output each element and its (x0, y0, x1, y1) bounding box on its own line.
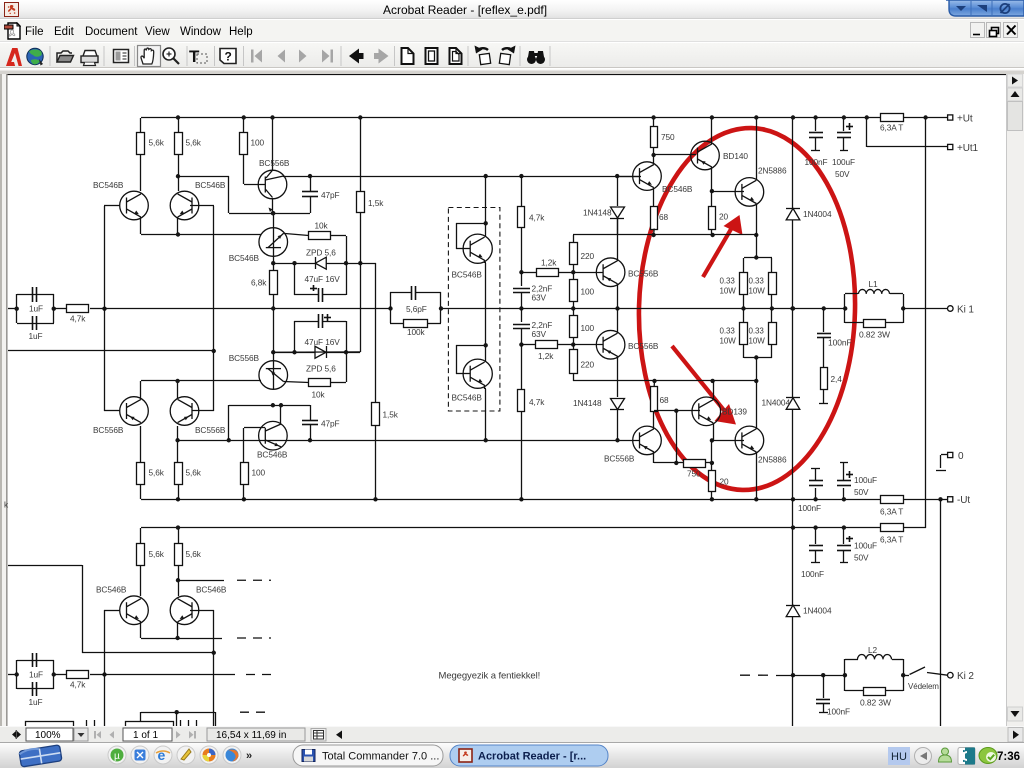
wire Q2 emitter / emitter rail (177, 217, 179, 234)
svg-text:100k: 100k (407, 327, 426, 337)
svg-text:µ: µ (114, 751, 120, 762)
svg-text:+Ut1: +Ut1 (957, 143, 979, 154)
page view icons (402, 48, 462, 64)
wire vbe top node (273, 263, 376, 265)
capacitor C12 100nF mid (815, 488, 817, 499)
svg-text:10k: 10k (312, 390, 326, 400)
transistor Q2 BC546B (170, 191, 199, 220)
svg-text:6,3A T: 6,3A T (880, 507, 903, 517)
diode D6 1N4004 mid (792, 308, 794, 398)
resistor R9 1,5k lower (375, 263, 377, 403)
wire Q2b base (192, 410, 214, 412)
svg-text:20: 20 (720, 477, 730, 487)
resistor R7 10k lower (284, 382, 309, 383)
svg-text:220: 220 (581, 360, 595, 370)
globe icon (27, 48, 43, 64)
svg-text:BC556B: BC556B (93, 425, 124, 435)
wire BD140 collector down (711, 167, 713, 191)
resistor R29 68 lower (651, 387, 658, 412)
svg-text:T: T (189, 47, 200, 66)
wire BD139 collector up (713, 381, 715, 400)
wire ch2 supply rail (141, 527, 881, 529)
capacitor C5 47uF 16V lower (294, 321, 296, 352)
svg-text:10W: 10W (749, 337, 766, 346)
resistor R16 1,2k lower (519, 342, 523, 346)
svg-text:0.33: 0.33 (720, 277, 736, 286)
binoculars (527, 51, 545, 64)
svg-text:Total Commander 7.0 ...: Total Commander 7.0 ... (322, 751, 439, 763)
resistor R1 4,7k input (54, 308, 67, 310)
resistor R23 68 upper (651, 207, 658, 230)
svg-text:Megegyezik a fentiekkel!: Megegyezik a fentiekkel! (439, 671, 541, 682)
svg-text:68: 68 (660, 395, 670, 405)
wire ch2 input stub (8, 674, 17, 676)
transistor Q16 2N5886 bottom (735, 426, 764, 455)
wire T up to y405 (228, 405, 230, 440)
capacitor C11 100uF 50V top (843, 118, 845, 131)
svg-text:100uF: 100uF (832, 157, 855, 167)
wire y410 base link (654, 410, 700, 412)
svg-text:BC546B: BC546B (662, 184, 693, 194)
wire T down to emitter wire (228, 176, 230, 213)
resistor R10 100k (390, 323, 404, 325)
navigation pane icon (114, 50, 129, 63)
capacitor C4 47uF 16V upper (294, 263, 296, 295)
resistor R17 4,7k lower (521, 345, 523, 390)
wire Q13 emitter down (756, 204, 758, 258)
svg-text:5,6k: 5,6k (186, 138, 202, 148)
resistor R13 100 bottom (241, 463, 249, 485)
svg-text:6,3A T: 6,3A T (880, 535, 903, 545)
resistor R34 5,6k ch2 (140, 528, 142, 544)
svg-text:5,6k: 5,6k (186, 468, 202, 478)
page nav (94, 731, 114, 739)
svg-text:4,7k: 4,7k (529, 397, 545, 407)
svg-text:50V: 50V (854, 487, 869, 497)
wire Q2b emitter / rail y381 (177, 381, 179, 399)
transistor Q1b BC556B (120, 397, 149, 426)
resistor R31 20 lower (711, 440, 713, 463)
svg-text:1,2k: 1,2k (541, 258, 557, 268)
capacitor C10 100nF top (815, 118, 817, 131)
svg-text:5,6k: 5,6k (149, 138, 165, 148)
svg-text:0: 0 (958, 451, 964, 462)
svg-text:1N4004: 1N4004 (803, 209, 832, 219)
svg-text:100nF: 100nF (828, 338, 852, 348)
wire bridge bottom (744, 357, 772, 359)
wire Q2b collector (177, 426, 179, 462)
wire Q10 emitter down (617, 356, 619, 397)
wire +Ut1 branch (866, 118, 868, 147)
svg-text:100%: 100% (35, 730, 61, 741)
fuse F3 6,3A T ch2 (881, 524, 904, 532)
switch Vedelem (901, 673, 905, 677)
svg-text:+Ut: +Ut (957, 114, 973, 125)
diode D4 1N4148 lower (611, 399, 625, 410)
svg-text:47uF 16V: 47uF 16V (305, 274, 341, 284)
inductor L2 (823, 675, 845, 677)
svg-text:47uF 16V: 47uF 16V (305, 337, 341, 347)
wire ch2 output dashes (740, 674, 776, 676)
wire Q14 emitter down (653, 452, 655, 463)
resistor R26 0.33 10W (771, 258, 773, 272)
wire BD139 emitter down (713, 423, 715, 440)
transistor Q18 BC546B diode lower (463, 359, 492, 388)
svg-text:L2: L2 (868, 645, 878, 655)
wire Q19 base (104, 610, 120, 612)
resistor R3 5,6k (178, 118, 180, 132)
wire ch2 input line (104, 674, 235, 676)
capacitor C13 100uF 50V mid (843, 488, 845, 499)
svg-text:50V: 50V (835, 169, 850, 179)
transistor Q9 BC556B upper (596, 258, 625, 287)
terminal 0 (941, 454, 948, 456)
folder (57, 51, 72, 62)
terminal -Ut (938, 497, 942, 501)
svg-text:10W: 10W (720, 337, 737, 346)
svg-text:1N4148: 1N4148 (573, 398, 602, 408)
svg-text:L1: L1 (869, 279, 879, 289)
svg-text:4,7k: 4,7k (529, 213, 545, 223)
wire Q11 collector (653, 155, 655, 164)
wire Q9 collector down (617, 284, 619, 308)
resistor R36 4,7k ch2 (54, 674, 67, 676)
resistor R8 1,5k upper (360, 118, 362, 192)
resistor R22 750 (653, 118, 655, 126)
svg-text:1uF: 1uF (29, 331, 43, 341)
wire Q2 base column (190, 205, 214, 207)
quick launch icons (108, 746, 252, 764)
svg-text:1N4004: 1N4004 (762, 398, 791, 408)
svg-text:100nF: 100nF (827, 707, 850, 717)
start flag (19, 745, 62, 767)
svg-text:63V: 63V (532, 293, 547, 303)
wire Q9 emitter up (617, 219, 619, 261)
resistor R11 5,6k bottom (137, 463, 145, 485)
svg-text:10W: 10W (720, 287, 737, 296)
svg-text:750: 750 (661, 132, 675, 142)
wire feedback line (8, 350, 214, 352)
resistor R21 220 lower (573, 345, 575, 350)
zoom tool (163, 48, 175, 60)
printer (83, 51, 97, 57)
svg-text:10W: 10W (749, 287, 766, 296)
transistor Q14 BC556B driver lower (633, 426, 662, 455)
svg-text:BC546B: BC546B (196, 585, 227, 595)
wire Q1b collector (140, 426, 142, 462)
svg-text:7:36: 7:36 (997, 751, 1020, 763)
svg-text:1uF: 1uF (29, 697, 43, 707)
wire y405 (229, 405, 310, 407)
resistor R5 10k upper (284, 233, 309, 235)
svg-text:BC546B: BC546B (195, 180, 226, 190)
transistor Q10 BC556B lower (596, 330, 625, 359)
svg-text:750: 750 (687, 469, 701, 479)
svg-text:6,8k: 6,8k (251, 278, 267, 288)
terminal +Ut (948, 115, 953, 120)
diode D3 1N4148 upper (617, 176, 619, 206)
svg-text:Acrobat Reader - [r...: Acrobat Reader - [r... (478, 751, 586, 763)
svg-text:5,6k: 5,6k (149, 468, 165, 478)
svg-text:0.33: 0.33 (749, 277, 765, 286)
back arrow (black), forward (gray) (349, 49, 364, 64)
wire Q2 collector (178, 155, 180, 191)
capacitor C3 47pF (310, 176, 312, 192)
fuse F2 6,3A T (881, 496, 904, 504)
svg-text:4,7k: 4,7k (70, 314, 86, 324)
h-scroll right arrow at far right (1008, 728, 1023, 743)
help tool (220, 49, 236, 64)
wire input stub (8, 308, 17, 310)
nav arrows first/prev/next/last (disabled) (251, 50, 333, 63)
svg-text:5,6pF: 5,6pF (406, 304, 427, 314)
wire 220 top to y235 (573, 234, 654, 236)
svg-text:Ki 1: Ki 1 (957, 305, 974, 316)
wire Q1 base column (104, 206, 106, 309)
transistor Q20 BC546B ch2 (170, 596, 199, 625)
svg-text:0.33: 0.33 (749, 327, 765, 336)
svg-text:100uF: 100uF (854, 475, 877, 485)
window buttons (blue skin) (946, 0, 1024, 19)
capacitor C18 1uF ch2 (32, 682, 34, 696)
wire Q1b base (104, 410, 120, 412)
transistor Q11 BC546B driver (633, 162, 662, 191)
svg-text:0.82 3W: 0.82 3W (859, 330, 890, 340)
svg-text:50V: 50V (854, 553, 869, 563)
red arrow lower (672, 346, 727, 414)
svg-text:100: 100 (581, 287, 595, 297)
svg-text:1,5k: 1,5k (368, 198, 384, 208)
tray (888, 747, 910, 765)
pdf document icon (4, 22, 21, 40)
svg-text:1,5k: 1,5k (383, 410, 399, 420)
capacitor C1 1uF (17, 294, 54, 296)
svg-text:16,54 x 11,69 in: 16,54 x 11,69 in (216, 730, 286, 741)
wire mid supply to -Ut (141, 499, 881, 501)
transistor Q3 BC556B (272, 118, 274, 170)
svg-text:-Ut: -Ut (957, 495, 970, 506)
svg-text:4,7k: 4,7k (70, 680, 86, 690)
terminal Ki 1 (901, 306, 905, 310)
wire Q18 emitter down (484, 385, 486, 389)
red annotation ellipse (634, 125, 859, 493)
acrobat app icon (4, 2, 19, 17)
wire Q14 collector up to 68 (653, 411, 655, 429)
resistor R39 0.82 3W ch2 (845, 690, 863, 692)
capacitor C15 100uF 50V ch2 (843, 528, 845, 544)
svg-text:BD140: BD140 (723, 151, 748, 161)
zoom box (26, 728, 73, 741)
svg-text:BC556B: BC556B (259, 158, 290, 168)
resistor R20 100 lower (573, 308, 575, 315)
svg-text:100nF: 100nF (805, 157, 828, 167)
capacitor C8 2,2nF 63V upper (521, 272, 523, 286)
svg-text:5,6k: 5,6k (149, 549, 165, 559)
wire output to L1 (790, 306, 794, 310)
svg-text:100nF: 100nF (798, 503, 821, 513)
svg-text:BC556B: BC556B (604, 454, 635, 464)
hand tool pressed (138, 46, 161, 67)
resistor R27 0.33 10W lower (743, 308, 745, 322)
wire Q17 base tie (456, 248, 470, 250)
dashed box (448, 208, 500, 412)
transistor Q15 BD139 (692, 397, 721, 426)
svg-text:100: 100 (251, 138, 265, 148)
svg-text:1N4004: 1N4004 (803, 606, 832, 616)
svg-text:Védelem: Védelem (908, 682, 939, 691)
svg-text:6,3A T: 6,3A T (880, 123, 903, 133)
wire Q16 emitter down (756, 452, 758, 499)
resistor R6 6,8k (273, 263, 275, 270)
mdi child buttons (970, 22, 1022, 39)
svg-text:BD139: BD139 (722, 407, 747, 417)
diode D7 1N4004 ch2 (792, 528, 794, 605)
svg-text:ZPD 5,6: ZPD 5,6 (306, 248, 336, 258)
svg-text:100: 100 (252, 468, 266, 478)
resistor R2 5,6k (140, 118, 142, 132)
fuse F1 6,3A T (881, 114, 904, 122)
svg-text:47pF: 47pF (321, 190, 340, 200)
svg-text:0.33: 0.33 (720, 327, 736, 336)
wire Q16 collector up (756, 381, 758, 429)
wire bridge top (744, 257, 772, 259)
wire -Ut down (940, 499, 942, 726)
resistor R18 220 upper (573, 235, 575, 242)
capacitor C9 2,2nF 63V lower (521, 308, 523, 322)
svg-text:ZPD 5,6: ZPD 5,6 (306, 364, 336, 374)
task button: total commander (293, 745, 443, 766)
svg-text:2N5886: 2N5886 (758, 455, 787, 465)
svg-text:5,6k: 5,6k (186, 549, 202, 559)
wire bias rail y440 (178, 440, 639, 442)
resistor R12 5,6k bottom (175, 463, 183, 485)
resistor R24 20 upper (711, 191, 713, 206)
wire vbe bottom node (273, 352, 360, 354)
transistor Q6 BC546B vbe upper (273, 213, 275, 228)
svg-text:220: 220 (581, 251, 595, 261)
wire 2N5886 top base (712, 191, 744, 193)
wire Q20 base (190, 610, 214, 612)
wire 2N5886 bottom base (712, 440, 744, 442)
svg-text:1N4148: 1N4148 (583, 208, 612, 218)
transistor Q19 BC546B ch2 (120, 596, 149, 625)
page top border (8, 73, 1007, 75)
svg-text:20: 20 (719, 212, 729, 222)
resistor R32 2,4 (821, 368, 828, 390)
svg-text:BC556B: BC556B (628, 269, 659, 279)
splitter glyph (12, 731, 18, 738)
svg-text:1uF: 1uF (29, 304, 43, 314)
inductor L1 (843, 306, 847, 310)
wire Q1b emitter (140, 381, 142, 399)
svg-text:68: 68 (659, 212, 669, 222)
svg-text:47pF: 47pF (321, 419, 340, 429)
svg-text:BC556B: BC556B (229, 353, 260, 363)
capacitor C16 100nF output (823, 308, 825, 332)
svg-text:»: » (246, 750, 252, 762)
transistor Q13 2N5886 top (735, 178, 764, 207)
wire Q17 emitter down (484, 260, 486, 263)
capacitor C2 1uF (32, 316, 34, 330)
svg-text:2,4: 2,4 (831, 374, 843, 384)
svg-text:e: e (158, 747, 166, 763)
svg-text:100nF: 100nF (801, 569, 824, 579)
resistor R15 1,2k upper (519, 270, 523, 274)
svg-text:1,2k: 1,2k (538, 351, 554, 361)
svg-text:2N5886: 2N5886 (758, 166, 787, 176)
terminal +Ut1 (948, 144, 953, 149)
svg-text:BC546B: BC546B (96, 585, 127, 595)
transistor Q1 BC546B (120, 191, 149, 220)
capacitor C14 100nF ch2 (815, 528, 817, 544)
resistor R38 partial bottom (126, 722, 174, 728)
svg-text:BC546B: BC546B (257, 450, 288, 460)
wire ch2 emitter rail (140, 622, 142, 638)
svg-text:1uF: 1uF (29, 670, 43, 680)
resistor R28 0.33 10W lower (771, 308, 773, 322)
wire collector rail y176 (178, 176, 229, 178)
transistor Q7 BC556B vbe lower (271, 350, 275, 354)
capacitor C7 47pF lower (310, 405, 312, 420)
capacitor C6 5,6pF (388, 306, 392, 310)
wire Q18 base tie (456, 373, 470, 375)
wire BD140 emitter up (711, 118, 713, 144)
terminal Ki 2 (948, 672, 954, 678)
svg-text:1 of 1: 1 of 1 (133, 730, 158, 741)
zener D2 ZPD 5,6 lower (315, 346, 326, 358)
resistor R25 0.33 10W (743, 258, 745, 272)
wire ch2 wrap line (8, 565, 82, 567)
wire 220 bottom to y380.9 (573, 380, 756, 382)
task button: acrobat (active) (450, 745, 608, 766)
wire Q11 emitter to 68 (653, 188, 655, 206)
resistor R14 4,7k upper (521, 176, 523, 206)
wire Q1 collector (140, 155, 142, 191)
svg-text:BC546B: BC546B (452, 393, 483, 403)
wire Q13 collector up (756, 118, 758, 180)
rotate icons (475, 46, 516, 65)
svg-text:0.82 3W: 0.82 3W (860, 698, 891, 708)
resistor R30 750 lower (684, 460, 706, 468)
transistor Q2b BC556B (170, 397, 199, 426)
zener D1 ZPD 5,6 upper (315, 257, 326, 269)
red arrow upper (703, 224, 734, 277)
adobe logo (6, 48, 22, 66)
wire ch2 lower stub rail (141, 712, 215, 714)
wire ch2 collector dash (178, 580, 224, 582)
svg-text:BC546B: BC546B (452, 270, 483, 280)
wire y213 (229, 213, 310, 215)
resistor R4 100 (243, 118, 245, 132)
wire Q1 emitter (140, 217, 142, 234)
capacitor C19 100nF ch2 output (821, 673, 825, 677)
diode D5 1N4004 top (792, 118, 794, 209)
resistor R35 5,6k ch2 (178, 528, 180, 544)
wire mid rail (104, 308, 390, 310)
resistor R37 partial bottom (26, 722, 74, 728)
svg-text:BC556B: BC556B (628, 341, 659, 351)
wire +supply rail top (141, 117, 881, 119)
h-scroll left arrow (336, 731, 342, 740)
wire bottom stubs (86, 720, 88, 726)
svg-text:BC546B: BC546B (93, 180, 124, 190)
resistor R33 0.82 3W (845, 322, 863, 324)
svg-text:?: ? (225, 50, 232, 64)
transistor Q8 BC546B lower mirror of Q3 (259, 421, 288, 450)
svg-text:10k: 10k (315, 221, 329, 231)
svg-text:HU: HU (891, 751, 907, 763)
svg-text:63V: 63V (532, 329, 547, 339)
